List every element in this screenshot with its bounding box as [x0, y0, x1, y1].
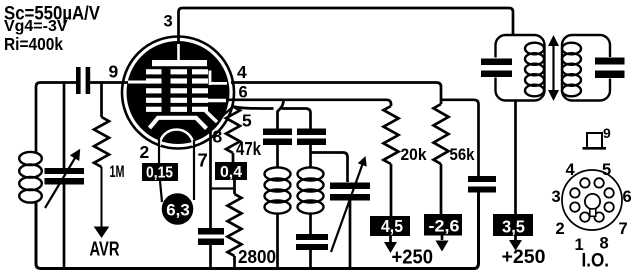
svg-text:47k: 47k	[236, 139, 262, 159]
socket pin 1	[580, 212, 589, 221]
resistor 20k	[384, 106, 399, 164]
arrow 4,5 to +250	[389, 236, 392, 242]
wire cap to osc coil A	[276, 145, 279, 168]
svg-text:+250: +250	[502, 246, 546, 268]
tube grid lead pin 5 diagonal	[205, 111, 217, 123]
wire HT top rail from pin 3 to IF transformer	[179, 8, 514, 44]
resistor 2800	[233, 180, 236, 194]
svg-text:5: 5	[242, 111, 252, 131]
wire 20k to badge	[390, 164, 393, 216]
svg-text:1M: 1M	[110, 162, 125, 181]
svg-text:56k: 56k	[450, 145, 475, 164]
svg-text:5: 5	[602, 161, 611, 179]
inductor osc coil A	[265, 167, 291, 180]
svg-text:Vg4=-3V: Vg4=-3V	[4, 18, 68, 35]
capacitor screen bypass	[468, 176, 496, 182]
wire cathode cap to ground rail	[209, 245, 212, 268]
svg-text:3,5: 3,5	[502, 217, 525, 237]
svg-text:7: 7	[619, 220, 628, 238]
svg-text:I.O.: I.O.	[582, 251, 610, 272]
resistor 1M AVR grid leak	[100, 83, 103, 118]
svg-text:9: 9	[603, 125, 611, 141]
badge 4,5	[370, 216, 410, 236]
svg-text:4: 4	[237, 62, 247, 82]
svg-text:2800: 2800	[238, 247, 276, 267]
wire grid lead from antenna to pin 9	[36, 83, 77, 153]
svg-text:AVR: AVR	[90, 239, 120, 261]
wire osc tank A branch with hop	[278, 100, 284, 129]
capacitor IF secondary	[595, 58, 625, 65]
resistor 47k	[226, 107, 240, 154]
wire cap to osc coil B	[309, 145, 312, 168]
wire pin 7 lead	[193, 140, 195, 200]
wire IF primary to +250	[514, 101, 517, 215]
wire osc padder branch	[311, 153, 348, 183]
inductor IF secondary	[562, 43, 581, 55]
inductor IF primary	[525, 43, 544, 55]
variable capacitor antenna tuning	[45, 168, 85, 174]
wire 56k to badge	[440, 164, 443, 214]
capacitor osc tank B top	[297, 129, 326, 136]
svg-text:6: 6	[239, 84, 248, 102]
tube beam plate	[150, 118, 207, 129]
arrow osc variable cap adjust	[331, 160, 364, 252]
tube U1 envelope	[122, 37, 234, 149]
wire pin 5 to osc tank B with hop over	[233, 107, 274, 109]
arrow AVR down	[94, 227, 110, 239]
coupling arrow double-headed	[552, 45, 554, 91]
wire osc coil A to ground rail	[276, 214, 279, 268]
svg-text:4,5: 4,5	[381, 216, 403, 236]
wire pin 8 cathode lead	[209, 128, 212, 228]
wire node cathode junction	[211, 187, 235, 189]
inductor antenna coil	[19, 152, 42, 165]
badge 0,4	[215, 162, 247, 180]
socket pin 5	[594, 178, 603, 187]
svg-text:3: 3	[164, 13, 173, 31]
arrow 3,5 to +250	[514, 236, 517, 240]
wire pin 6 to 20k and osc tank A	[225, 100, 391, 106]
svg-text:9: 9	[109, 62, 119, 82]
tube grids (dashed rows)	[146, 69, 162, 74]
svg-text:3: 3	[552, 188, 561, 206]
variable capacitor oscillator	[330, 183, 370, 190]
badge 0,15	[142, 163, 178, 181]
capacitor cathode bypass	[198, 228, 224, 235]
svg-text:2: 2	[556, 220, 565, 238]
wire pin 5 lead diagonal	[213, 107, 233, 125]
badge -2,6	[424, 214, 462, 236]
svg-text:4: 4	[566, 161, 576, 179]
inductor osc coil B	[298, 167, 324, 180]
tube socket base diagram	[562, 170, 622, 230]
svg-text:0,15: 0,15	[146, 165, 173, 182]
top cap symbol pin 9	[587, 133, 602, 148]
wire osc variable cap to ground rail	[349, 201, 352, 268]
socket pin 7	[604, 202, 613, 211]
svg-text:8: 8	[213, 127, 223, 147]
socket pin 8	[594, 212, 603, 221]
svg-text:0,4: 0,4	[220, 164, 242, 181]
wire pin 4 to 56k and screen bypass	[231, 83, 441, 105]
svg-text:-2,6: -2,6	[429, 217, 460, 236]
socket pin 6	[604, 188, 613, 197]
svg-text:20k: 20k	[401, 145, 427, 164]
IF transformer right can	[562, 35, 610, 101]
tube anode	[177, 44, 180, 60]
svg-text:6,3: 6,3	[166, 201, 190, 220]
svg-text:2: 2	[140, 142, 150, 162]
socket pin 4	[580, 178, 589, 187]
badge 3,5	[493, 214, 533, 236]
wire pin 2 lead	[158, 138, 160, 163]
wire tuning cap branch	[63, 83, 66, 169]
capacitor osc tank A	[263, 129, 292, 136]
socket pin 2	[570, 202, 579, 211]
capacitor osc tank B bottom	[296, 234, 328, 240]
arrow -2,6 to +250	[441, 236, 444, 241]
wire osc coil B to cap	[309, 214, 312, 235]
tube grid lead pin 6	[207, 99, 226, 103]
svg-text:7: 7	[198, 150, 208, 171]
socket pin 3	[570, 188, 579, 197]
wire osc tank B to ground rail	[309, 250, 312, 268]
badge 6,3 heater	[162, 193, 194, 225]
tube grid lead pin 9 entry	[128, 81, 147, 84]
tube grid bracket to pin 4	[210, 71, 227, 86]
wire tuning cap to ground rail	[63, 184, 66, 268]
svg-text:6: 6	[623, 188, 632, 206]
socket key	[585, 194, 600, 209]
capacitor IF primary	[481, 59, 512, 66]
IF transformer left can	[496, 35, 545, 101]
svg-text:+250: +250	[392, 247, 434, 269]
svg-text:Ri=400k: Ri=400k	[4, 34, 63, 54]
wire 2800 to ground rail	[233, 256, 236, 268]
wire 47k to badge 0,4	[232, 153, 235, 163]
wire ground rail	[36, 192, 479, 269]
resistor 56k	[434, 104, 449, 164]
capacitor series antenna coupling	[76, 67, 81, 94]
tube cathode dome	[160, 130, 194, 147]
